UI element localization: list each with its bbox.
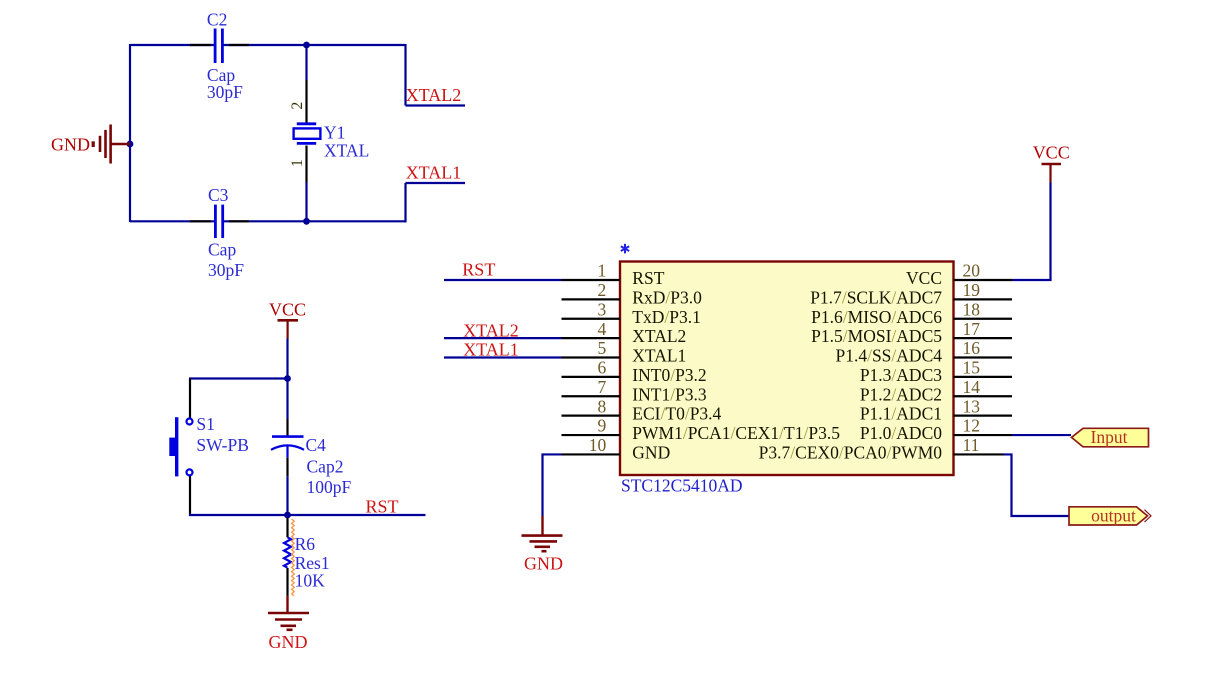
- svg-text:20: 20: [963, 261, 981, 281]
- svg-text:RST: RST: [632, 268, 664, 288]
- svg-text:P1.1/ADC1: P1.1/ADC1: [860, 404, 942, 424]
- svg-text:XTAL: XTAL: [324, 141, 369, 161]
- svg-text:P1.6/MISO/ADC6: P1.6/MISO/ADC6: [811, 307, 942, 327]
- svg-text:GND: GND: [51, 134, 90, 154]
- svg-text:P1.2/ADC2: P1.2/ADC2: [860, 384, 942, 404]
- svg-text:XTAL1: XTAL1: [632, 346, 686, 366]
- svg-text:PWM1/PCA1/CEX1/T1/P3.5: PWM1/PCA1/CEX1/T1/P3.5: [632, 423, 840, 443]
- svg-text:GND: GND: [524, 554, 563, 574]
- svg-text:XTAL1: XTAL1: [406, 163, 462, 183]
- svg-text:30pF: 30pF: [208, 260, 244, 280]
- svg-text:9: 9: [598, 416, 607, 436]
- svg-text:XTAL2: XTAL2: [632, 326, 686, 346]
- svg-text:C4: C4: [306, 435, 327, 455]
- svg-text:VCC: VCC: [906, 268, 942, 288]
- svg-text:7: 7: [598, 377, 607, 397]
- svg-text:100pF: 100pF: [307, 477, 352, 497]
- svg-text:3: 3: [598, 299, 607, 319]
- svg-text:1: 1: [289, 159, 306, 167]
- svg-text:SW-PB: SW-PB: [196, 435, 249, 455]
- svg-text:Cap2: Cap2: [307, 457, 344, 477]
- svg-text:STC12C5410AD: STC12C5410AD: [621, 475, 743, 495]
- svg-text:17: 17: [963, 319, 981, 339]
- svg-text:P1.4/SS/ADC4: P1.4/SS/ADC4: [835, 346, 942, 366]
- svg-text:P3.7/CEX0/PCA0/PWM0: P3.7/CEX0/PCA0/PWM0: [759, 442, 943, 462]
- svg-text:P1.3/ADC3: P1.3/ADC3: [860, 365, 942, 385]
- svg-text:P1.0/ADC0: P1.0/ADC0: [860, 423, 942, 443]
- svg-text:INT0/P3.2: INT0/P3.2: [632, 365, 706, 385]
- svg-text:C3: C3: [208, 185, 229, 205]
- svg-text:output: output: [1091, 506, 1136, 526]
- svg-text:Input: Input: [1091, 427, 1128, 447]
- svg-text:Cap: Cap: [208, 240, 236, 260]
- svg-text:2: 2: [289, 102, 306, 110]
- svg-text:GND: GND: [269, 632, 308, 652]
- svg-text:11: 11: [963, 435, 980, 455]
- svg-text:XTAL1: XTAL1: [463, 340, 519, 360]
- svg-text:VCC: VCC: [269, 299, 306, 319]
- svg-text:5: 5: [598, 338, 607, 358]
- svg-text:13: 13: [963, 396, 981, 416]
- svg-text:RST: RST: [366, 496, 399, 516]
- svg-text:VCC: VCC: [1033, 143, 1070, 163]
- svg-text:15: 15: [963, 358, 981, 378]
- svg-text:RxD/P3.0: RxD/P3.0: [632, 287, 702, 307]
- svg-text:GND: GND: [632, 442, 670, 462]
- svg-text:P1.7/SCLK/ADC7: P1.7/SCLK/ADC7: [810, 287, 942, 307]
- svg-text:10: 10: [589, 435, 607, 455]
- svg-text:30pF: 30pF: [207, 82, 243, 102]
- svg-text:C2: C2: [207, 9, 227, 29]
- svg-text:6: 6: [598, 358, 607, 378]
- svg-text:R6: R6: [295, 534, 316, 554]
- svg-text:19: 19: [963, 280, 981, 300]
- svg-text:Y1: Y1: [324, 123, 345, 143]
- svg-text:ECI/T0/P3.4: ECI/T0/P3.4: [632, 404, 721, 424]
- svg-text:12: 12: [963, 416, 981, 436]
- svg-text:14: 14: [963, 377, 981, 397]
- svg-text:TxD/P3.1: TxD/P3.1: [632, 307, 701, 327]
- svg-text:2: 2: [598, 280, 607, 300]
- svg-text:18: 18: [963, 299, 981, 319]
- svg-text:XTAL2: XTAL2: [406, 85, 462, 105]
- svg-text:10K: 10K: [295, 570, 326, 590]
- svg-text:RST: RST: [462, 260, 495, 280]
- svg-text:S1: S1: [196, 414, 214, 434]
- svg-text:INT1/P3.3: INT1/P3.3: [632, 384, 707, 404]
- svg-text:1: 1: [598, 261, 607, 281]
- svg-text:P1.5/MOSI/ADC5: P1.5/MOSI/ADC5: [811, 326, 942, 346]
- svg-text:4: 4: [598, 319, 607, 339]
- svg-text:8: 8: [598, 396, 607, 416]
- svg-text:16: 16: [963, 338, 981, 358]
- svg-text:XTAL2: XTAL2: [463, 321, 519, 341]
